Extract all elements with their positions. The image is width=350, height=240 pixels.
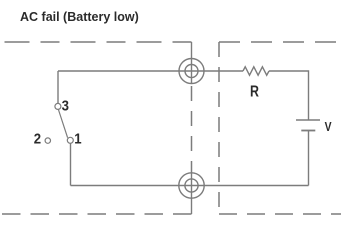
wire: switch upper lead — [57, 71, 59, 103]
battery V positive plate — [296, 119, 320, 121]
enclosure boundary: top dashed line (right part) — [219, 41, 341, 43]
wire: dashed vertical link between terminals — [191, 86, 193, 172]
wire: switch lower lead — [70, 143, 72, 185]
terminal J2 (bottom) inner circle — [185, 179, 198, 192]
switch blade (3 to 1) — [58, 110, 67, 138]
wire: bottom horizontal (switch to battery) — [71, 185, 309, 187]
svg-text:1: 1 — [74, 130, 81, 147]
wire: solid vertical through top terminal — [191, 42, 193, 84]
switch contact 3 — [55, 103, 61, 109]
svg-text:3: 3 — [62, 97, 69, 114]
battery V negative plate — [301, 130, 315, 132]
switch contact 1 — [67, 137, 73, 143]
switch contact 2 — [45, 138, 50, 143]
terminal J1 (top) inner circle — [185, 65, 198, 78]
svg-text:2: 2 — [34, 130, 41, 147]
wire: solid vertical through bottom terminal — [191, 172, 193, 214]
resistor R zigzag — [243, 67, 269, 75]
wire: battery bottom lead — [308, 131, 310, 186]
terminal J2 (bottom) outer circle — [179, 173, 204, 198]
enclosure boundary: bottom dashed line (right part) — [219, 213, 341, 215]
enclosure boundary: top dashed line (left part) — [2, 41, 192, 43]
terminal J1 (top) outer circle — [179, 59, 204, 84]
svg-text:R: R — [250, 82, 259, 100]
wire: resistor to battery top — [269, 71, 309, 120]
wire: top horizontal (switch to resistor) — [58, 70, 243, 72]
enclosure boundary: right vertical dashed line — [218, 42, 220, 214]
svg-text:AC fail (Battery low): AC fail (Battery low) — [20, 10, 139, 24]
enclosure boundary: bottom dashed line (left part) — [2, 213, 192, 215]
svg-text:V: V — [325, 120, 332, 134]
